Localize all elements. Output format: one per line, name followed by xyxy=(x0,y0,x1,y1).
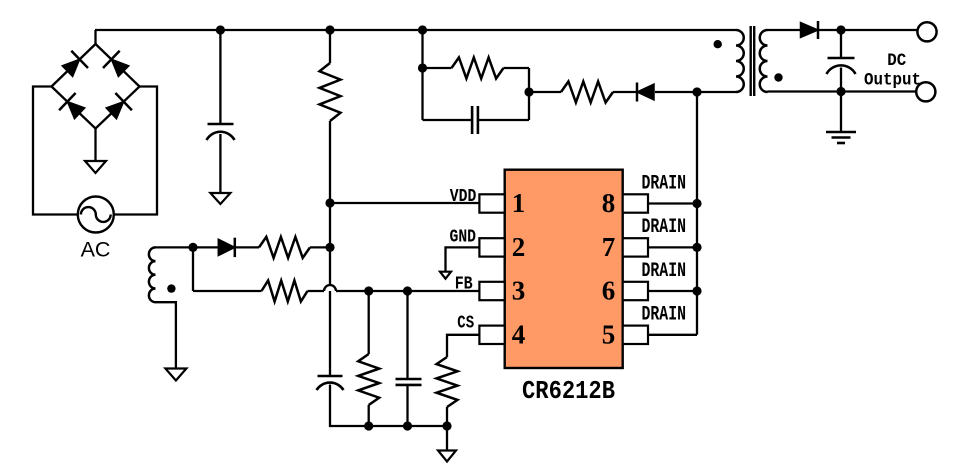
svg-text:DRAIN: DRAIN xyxy=(642,304,687,327)
node: VDD junction xyxy=(325,198,334,207)
wire: resistor R3 to clamp diode xyxy=(613,91,637,93)
node: - rail junction xyxy=(836,87,845,96)
diode D3 (VDD supply) xyxy=(218,238,235,257)
wire: aux junction down to FB branch xyxy=(192,247,194,291)
node: output capacitor junction (+ rail) xyxy=(836,25,845,34)
wire: hop to FB pin xyxy=(336,290,479,292)
ground (bridge negative) xyxy=(85,161,106,173)
bridge diode (bottom-right edge, pointing to right AC corner) xyxy=(106,93,132,119)
transformer T1 primary phase dot xyxy=(714,40,722,48)
transformer T1 primary winding xyxy=(736,30,744,92)
wire: FB node down to resistor R6 xyxy=(368,291,370,354)
svg-text:DRAIN: DRAIN xyxy=(642,216,687,239)
svg-text:CR6212B: CR6212B xyxy=(522,376,615,406)
svg-text:DC: DC xyxy=(887,51,906,71)
IC pin 8 box xyxy=(623,194,648,212)
wire: top rail from bridge to transformer primary xyxy=(95,29,736,31)
wire: - rail down to earth ground xyxy=(840,92,842,133)
wire: resistor R7 to bottom rail xyxy=(446,407,448,426)
wire: bottom rail xyxy=(369,425,447,427)
wire: snubber junction to series resistor xyxy=(529,91,561,93)
wire: C2 down to bottom rail corner xyxy=(330,385,369,427)
wire: snubber left vertical down to cap branch xyxy=(421,68,423,120)
ground (aux winding) xyxy=(165,369,186,381)
wire: snubber cap right side up to junction xyxy=(528,92,530,120)
resistor R6 (FB to ground, vertical) xyxy=(358,354,379,405)
capacitor C1 (input bulk, polarized) xyxy=(207,124,235,140)
node: bottom rail junction at R7 / ground xyxy=(442,421,451,430)
svg-text:4: 4 xyxy=(512,320,526,350)
wire: pin 2 to ground xyxy=(446,247,480,271)
capacitor C5 (FB filter) xyxy=(396,379,422,385)
wire: secondary top to output diode xyxy=(768,29,801,31)
wire: VDD node to pin 1 xyxy=(330,202,479,204)
AC source V1 xyxy=(78,197,114,233)
earth ground (output) xyxy=(826,132,856,143)
inductor L1 (aux winding) xyxy=(149,247,156,302)
wire: pin 7 to drain bus xyxy=(648,246,697,248)
diode D1 (clamp, cathode left) xyxy=(637,83,654,102)
terminal: DC output - xyxy=(916,82,935,101)
resistor R4 (VDD series, horizontal) xyxy=(259,237,310,258)
ground (bottom rail) xyxy=(438,451,456,462)
node: drain bus junction at pin 8 xyxy=(692,199,701,208)
svg-text:8: 8 xyxy=(602,188,616,218)
svg-text:GND: GND xyxy=(450,227,477,247)
wire: bridge top corner to top rail xyxy=(94,30,96,44)
capacitor C2 (VDD bypass, polarized) xyxy=(317,376,344,390)
wire: aux winding bottom to ground xyxy=(156,302,176,368)
resistor R1 (startup, vertical) xyxy=(320,63,341,121)
IC pin 4 box xyxy=(479,326,504,344)
node: FB junction at R6 xyxy=(364,286,373,295)
wire: VDD node down to aux diode junction xyxy=(329,203,331,247)
IC U1 CR6212B body xyxy=(505,170,623,368)
node: snubber output junction xyxy=(524,87,533,96)
resistor R5 (FB series, horizontal) xyxy=(262,281,308,302)
bridge rectifier diamond xyxy=(52,44,140,129)
transformer T1 secondary winding xyxy=(760,30,768,92)
node: drain bus junction at pin 7 xyxy=(692,243,701,252)
IC pin 1 box xyxy=(479,194,504,212)
wire: resistor R6 to bottom rail xyxy=(368,405,370,426)
wire: aux junction to diode D3 xyxy=(193,246,218,248)
wire hop: FB line crosses VDD column (no connection) xyxy=(324,285,336,291)
node: top rail junction at input capacitor xyxy=(216,25,225,34)
wire: secondary bottom (- rail) to - terminal xyxy=(768,90,917,92)
wire: bridge left corner to AC source (left loop) xyxy=(33,87,78,215)
wire: FB node down to capacitor C5 xyxy=(406,291,408,379)
svg-text:CS: CS xyxy=(457,314,474,334)
svg-text:6: 6 xyxy=(602,276,616,306)
bridge diode (top-left edge, pointing to + top corner) xyxy=(62,51,88,77)
wire: top rail down to input capacitor xyxy=(219,30,221,124)
node: drain bus junction at pin 6 xyxy=(692,286,701,295)
diode D2 (output rectifier) xyxy=(801,21,819,39)
wire: + rail down to output capacitor xyxy=(840,30,842,58)
resistor R3 (clamp series, horizontal) xyxy=(561,82,613,103)
svg-text:DRAIN: DRAIN xyxy=(642,173,687,196)
wire: primary bottom to drain node xyxy=(697,91,736,93)
bridge diode (top-right edge, pointing to + top corner) xyxy=(103,51,129,77)
terminal: DC output + xyxy=(917,22,936,41)
svg-text:DRAIN: DRAIN xyxy=(642,260,687,283)
svg-text:1: 1 xyxy=(512,188,526,218)
ground (input capacitor) xyxy=(210,193,230,204)
svg-text:Output: Output xyxy=(864,71,921,91)
IC pin 6 box xyxy=(623,282,648,300)
IC pin 5 box xyxy=(623,326,648,344)
transformer T1 secondary phase dot xyxy=(774,73,782,81)
svg-text:7: 7 xyxy=(602,232,616,262)
wire: output capacitor to - rail xyxy=(840,68,842,92)
wire: FB branch left segment xyxy=(193,290,262,292)
wire: output diode to + terminal xyxy=(818,29,918,31)
inductor L1 phase dot xyxy=(167,284,175,292)
IC pin 3 box xyxy=(479,282,504,300)
wire: pin 6 to drain bus xyxy=(648,290,697,292)
svg-text:VDD: VDD xyxy=(450,187,477,207)
node: aux diode/resistor junction on VDD column xyxy=(325,243,334,252)
wire: bridge right corner to AC source (right loop) xyxy=(114,87,157,215)
wire: pin 5 to drain bus xyxy=(648,334,697,336)
node: bottom rail junction at C5 xyxy=(403,421,412,430)
wire: bottom rail to ground xyxy=(446,426,448,450)
ground (IC GND pin) xyxy=(440,272,451,279)
label DC Output xyxy=(864,51,921,91)
resistor R7 (CS sense, vertical) xyxy=(437,357,458,407)
wire: resistor R4 to VDD column xyxy=(310,246,330,248)
svg-text:3: 3 xyxy=(512,276,526,306)
wire: bridge bottom corner down to ground xyxy=(94,129,96,163)
wire: top rail down to snubber node xyxy=(421,30,423,68)
node: drain/primary junction xyxy=(692,87,701,96)
wire: aux winding top to junction xyxy=(156,246,194,248)
wire: pin 8 to drain bus xyxy=(648,202,697,204)
node: aux top junction xyxy=(188,243,197,252)
wire: startup resistor down to VDD node xyxy=(329,121,331,203)
transformer T1 core xyxy=(751,26,755,96)
IC pin 2 box xyxy=(479,238,504,256)
capacitor C4 (output, polarized) xyxy=(827,58,856,74)
wire: snubber resistor right side down to junction xyxy=(528,68,530,92)
wire: drain bus vertical xyxy=(696,92,698,335)
capacitor C3 (snubber, horizontal) xyxy=(423,106,530,134)
node: snubber upper-left junction xyxy=(418,63,427,72)
node: bottom rail junction at R6 xyxy=(364,421,373,430)
bridge diode (bottom-left edge, pointing to left AC corner) xyxy=(59,93,85,119)
wire: clamp diode to drain node xyxy=(655,91,697,93)
svg-text:5: 5 xyxy=(602,320,616,350)
wire: capacitor C5 to bottom rail xyxy=(406,385,408,426)
wire: top rail down to startup resistor xyxy=(329,30,331,63)
node: top rail junction at snubber xyxy=(418,25,427,34)
resistor R2 (snubber, horizontal) xyxy=(423,58,530,79)
IC pin 7 box xyxy=(623,238,648,256)
svg-text:2: 2 xyxy=(512,232,526,262)
node: FB junction at C5 xyxy=(403,286,412,295)
node: top rail junction at startup resistor xyxy=(325,25,334,34)
wire: input capacitor to ground xyxy=(219,134,221,193)
wire: VDD column down to capacitor C2 (passes behind FB hop) xyxy=(329,247,331,376)
wire: resistor R5 to hop xyxy=(308,290,325,292)
wire: diode D3 to resistor R4 xyxy=(235,246,259,248)
wire: pin 4 to CS resistor xyxy=(447,335,479,357)
svg-text:AC: AC xyxy=(81,238,111,262)
